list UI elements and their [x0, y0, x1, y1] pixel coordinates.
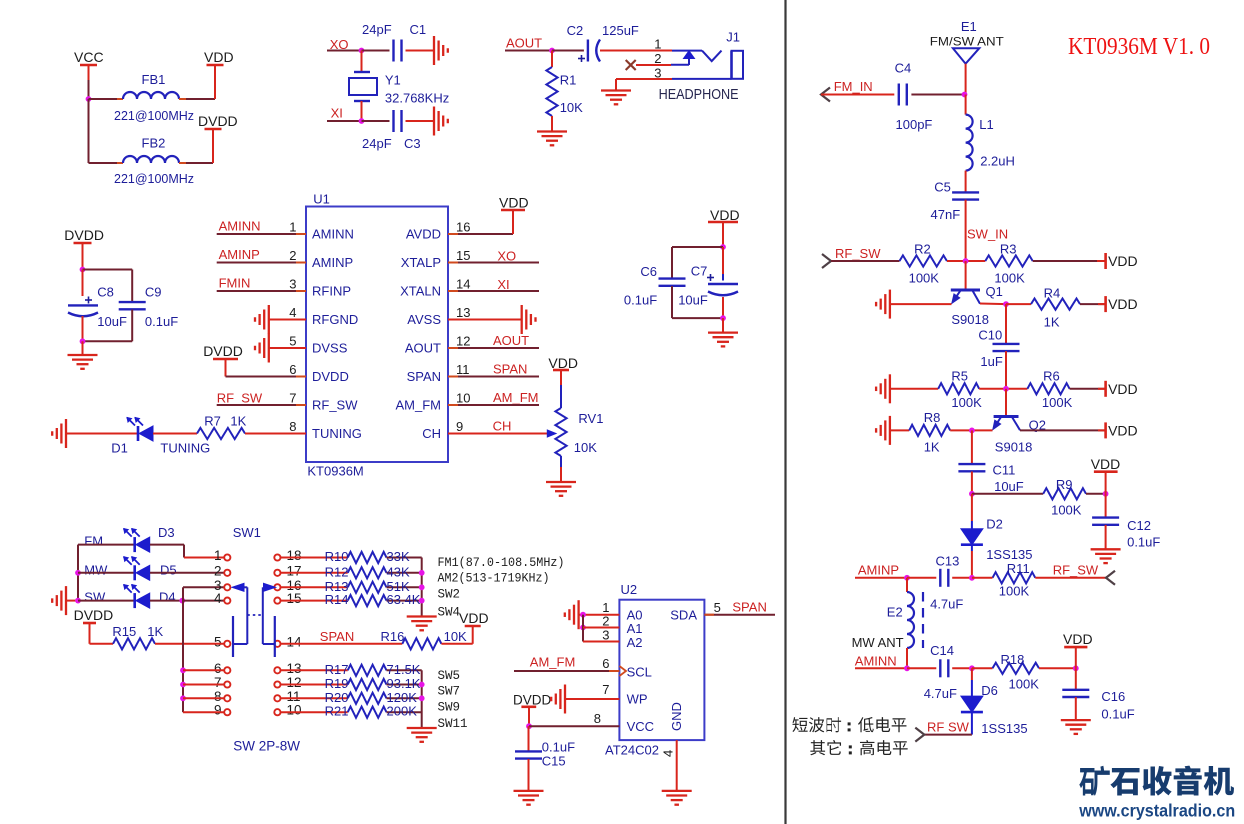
svg-text:XI: XI [331, 106, 343, 121]
svg-text:VDD: VDD [204, 49, 234, 65]
svg-text:8: 8 [594, 711, 601, 726]
svg-text:U1: U1 [313, 192, 330, 207]
svg-text:6: 6 [214, 661, 222, 676]
svg-text:3: 3 [289, 277, 296, 292]
svg-text:C6: C6 [640, 264, 657, 279]
svg-text:RF_SW: RF_SW [835, 246, 881, 261]
svg-text:C16: C16 [1101, 689, 1125, 704]
svg-text:13: 13 [456, 305, 470, 320]
svg-text:R12: R12 [325, 564, 349, 579]
svg-text:C13: C13 [936, 554, 960, 569]
svg-text:2: 2 [602, 614, 609, 629]
svg-text:8: 8 [289, 419, 296, 434]
svg-text:0.1uF: 0.1uF [145, 314, 178, 329]
svg-text:47nF: 47nF [931, 207, 961, 222]
svg-text:A1: A1 [627, 621, 643, 636]
svg-text:93.1K: 93.1K [387, 676, 421, 691]
svg-text:10K: 10K [444, 629, 467, 644]
svg-text:SPAN: SPAN [320, 629, 354, 644]
svg-text:6: 6 [602, 656, 609, 671]
svg-text:RF_SW: RF_SW [217, 391, 263, 406]
svg-text:R1: R1 [560, 73, 577, 88]
svg-text:R11: R11 [1007, 561, 1030, 576]
svg-text:FM_IN: FM_IN [834, 79, 873, 94]
svg-text:15: 15 [287, 591, 302, 606]
svg-text:R16: R16 [381, 629, 405, 644]
svg-text:DVSS: DVSS [312, 341, 348, 356]
svg-text:Y1: Y1 [385, 73, 401, 88]
svg-text:6: 6 [289, 362, 296, 377]
svg-text:100K: 100K [909, 271, 940, 286]
svg-text:C10: C10 [978, 328, 1002, 343]
svg-text:100K: 100K [999, 584, 1030, 599]
svg-text:C9: C9 [145, 285, 162, 300]
svg-text:AVDD: AVDD [406, 227, 441, 242]
svg-text:VDD: VDD [1108, 253, 1138, 269]
svg-text:KT0936M: KT0936M [307, 464, 363, 479]
svg-text:AM_FM: AM_FM [530, 655, 576, 670]
svg-text:TUNING: TUNING [160, 441, 210, 456]
svg-text:VDD: VDD [459, 610, 489, 626]
svg-text:AMINN: AMINN [219, 219, 261, 234]
svg-text:FM1(87.0-108.5MHz): FM1(87.0-108.5MHz) [438, 556, 565, 570]
svg-text:125uF: 125uF [602, 23, 639, 38]
svg-text:AM_FM: AM_FM [396, 398, 442, 413]
svg-text:SW4: SW4 [438, 606, 461, 620]
svg-text:14: 14 [287, 634, 303, 649]
svg-text:SW 2P-8W: SW 2P-8W [233, 739, 300, 754]
svg-text:4: 4 [214, 591, 222, 606]
svg-text:XO: XO [497, 249, 516, 264]
svg-text:XI: XI [497, 277, 509, 292]
svg-text:100pF: 100pF [896, 117, 933, 132]
svg-text:2: 2 [214, 563, 222, 578]
svg-text:D3: D3 [158, 525, 175, 540]
svg-text:11: 11 [287, 689, 301, 704]
svg-text:R19: R19 [325, 676, 349, 691]
svg-text:R21: R21 [325, 704, 349, 719]
svg-text:DVDD: DVDD [513, 693, 552, 708]
svg-text:1uF: 1uF [980, 354, 1002, 369]
svg-text:R20: R20 [325, 690, 349, 705]
svg-text:FM/SW ANT: FM/SW ANT [930, 34, 1005, 48]
svg-text:DVDD: DVDD [203, 343, 243, 359]
svg-text:5: 5 [214, 634, 222, 649]
svg-text:R7: R7 [204, 414, 221, 429]
svg-text:CH: CH [422, 426, 441, 441]
svg-text:AMINN: AMINN [855, 654, 897, 669]
svg-text:U2: U2 [621, 582, 638, 597]
svg-text:1K: 1K [1044, 315, 1060, 330]
svg-text:AOUT: AOUT [506, 36, 542, 51]
svg-text:GND: GND [669, 702, 684, 731]
svg-text:J1: J1 [726, 30, 740, 45]
svg-text:SW11: SW11 [438, 717, 468, 731]
svg-text:R17: R17 [325, 662, 349, 677]
svg-text:SW9: SW9 [438, 701, 461, 715]
svg-text:C1: C1 [410, 22, 427, 37]
svg-text:VDD: VDD [499, 195, 529, 211]
svg-text:E2: E2 [887, 605, 903, 620]
svg-text:4.7uF: 4.7uF [924, 686, 957, 701]
svg-text:0.1uF: 0.1uF [1101, 707, 1134, 722]
svg-text:7: 7 [214, 675, 222, 690]
svg-text:DVDD: DVDD [198, 113, 238, 129]
svg-text:www.crystalradio.cn: www.crystalradio.cn [1078, 801, 1235, 821]
svg-text:0.1uF: 0.1uF [624, 293, 657, 308]
svg-text:AMINP: AMINP [312, 255, 353, 270]
svg-text:Q1: Q1 [986, 284, 1003, 299]
svg-text:200K: 200K [387, 704, 418, 719]
svg-text:VDD: VDD [1108, 422, 1138, 438]
svg-text:HEADPHONE: HEADPHONE [659, 86, 739, 103]
svg-text:2: 2 [654, 51, 661, 66]
svg-text:13: 13 [287, 661, 302, 676]
svg-text:SW2: SW2 [438, 588, 461, 602]
svg-text:D4: D4 [159, 590, 176, 605]
svg-text:A2: A2 [627, 635, 643, 650]
svg-text:1K: 1K [147, 624, 163, 639]
svg-text:18: 18 [287, 548, 302, 563]
svg-text:DVDD: DVDD [74, 607, 114, 623]
svg-text:RV1: RV1 [578, 411, 603, 426]
svg-text:C11: C11 [993, 463, 1016, 478]
svg-text:C7: C7 [691, 264, 708, 279]
svg-text:2.2uH: 2.2uH [980, 154, 1015, 169]
svg-text:VDD: VDD [710, 207, 740, 223]
svg-text:43K: 43K [387, 564, 410, 579]
svg-text:14: 14 [456, 277, 470, 292]
svg-text:C12: C12 [1127, 518, 1151, 533]
svg-text:17: 17 [287, 563, 302, 578]
svg-text:FB2: FB2 [142, 136, 166, 151]
svg-text:VDD: VDD [1063, 631, 1093, 647]
svg-text:1SS135: 1SS135 [986, 547, 1032, 562]
svg-text:4: 4 [289, 305, 296, 320]
svg-text:SW5: SW5 [438, 669, 461, 683]
svg-text:CH: CH [493, 419, 512, 434]
svg-text:100K: 100K [951, 395, 982, 410]
svg-text:1: 1 [654, 37, 661, 52]
svg-text:SW_IN: SW_IN [967, 227, 1008, 242]
svg-text:5: 5 [714, 600, 721, 615]
svg-text:16: 16 [456, 220, 470, 235]
svg-text:7: 7 [289, 391, 296, 406]
svg-text:R4: R4 [1044, 286, 1061, 301]
svg-text:10uF: 10uF [678, 293, 708, 308]
svg-text:10K: 10K [574, 440, 597, 455]
svg-text:C2: C2 [567, 23, 584, 38]
svg-text:C14: C14 [930, 643, 954, 658]
svg-text:0.1uF: 0.1uF [542, 740, 575, 755]
svg-text:AM2(513-1719KHz): AM2(513-1719KHz) [438, 572, 550, 586]
svg-text:RF_SW: RF_SW [312, 398, 358, 413]
svg-text:SW7: SW7 [438, 685, 461, 699]
svg-text:32.768KHz: 32.768KHz [385, 91, 449, 106]
svg-text:E1: E1 [961, 19, 977, 34]
svg-text:1K: 1K [924, 440, 940, 455]
svg-text:7: 7 [602, 682, 609, 697]
svg-text:VDD: VDD [1108, 381, 1138, 397]
svg-text:R18: R18 [1001, 652, 1025, 667]
svg-text:33K: 33K [387, 549, 410, 564]
svg-text:SPAN: SPAN [493, 362, 527, 377]
svg-text:L1: L1 [979, 117, 993, 132]
svg-text:10uF: 10uF [97, 314, 127, 329]
svg-text:R8: R8 [924, 410, 941, 425]
svg-text:11: 11 [456, 362, 470, 377]
svg-text:10: 10 [456, 391, 470, 406]
svg-text:VDD: VDD [1091, 456, 1121, 472]
svg-text:12: 12 [287, 675, 302, 690]
svg-text:VDD: VDD [548, 355, 578, 371]
svg-text:RFGND: RFGND [312, 312, 358, 327]
svg-text:R2: R2 [914, 242, 931, 257]
svg-text:C15: C15 [542, 754, 566, 769]
svg-text:1: 1 [214, 548, 222, 563]
svg-text:3: 3 [602, 628, 609, 643]
svg-text:4: 4 [661, 750, 676, 757]
svg-text:9: 9 [456, 419, 463, 434]
svg-text:SCL: SCL [627, 665, 652, 680]
svg-text:0.1uF: 0.1uF [1127, 535, 1160, 550]
svg-text:AOUT: AOUT [493, 333, 529, 348]
svg-text:1K: 1K [230, 414, 246, 429]
svg-text:XTALP: XTALP [401, 255, 441, 270]
svg-text:FMIN: FMIN [219, 276, 251, 291]
svg-text:SW1: SW1 [233, 525, 261, 540]
svg-text:SPAN: SPAN [732, 600, 766, 615]
svg-text:RF SW: RF SW [927, 720, 970, 735]
svg-text:SW: SW [84, 590, 106, 605]
svg-text:1SS135: 1SS135 [981, 721, 1027, 736]
svg-text:WP: WP [627, 692, 648, 707]
svg-text:DVDD: DVDD [64, 227, 104, 243]
svg-text:10K: 10K [560, 100, 583, 115]
svg-text:R3: R3 [1000, 242, 1017, 257]
svg-text:120K: 120K [387, 690, 418, 705]
svg-text:8: 8 [214, 689, 222, 704]
svg-text:15: 15 [456, 248, 470, 263]
svg-text:AT24C02: AT24C02 [605, 743, 659, 758]
svg-text:221@100MHz: 221@100MHz [114, 108, 194, 123]
svg-text:9: 9 [214, 703, 222, 718]
svg-text:5: 5 [289, 334, 296, 349]
svg-text:71.5K: 71.5K [387, 662, 421, 677]
svg-text:KT0936M V1. 0: KT0936M V1. 0 [1068, 34, 1210, 60]
svg-text:10uF: 10uF [994, 479, 1024, 494]
svg-text:AOUT: AOUT [405, 341, 441, 356]
svg-text:AVSS: AVSS [407, 312, 441, 327]
svg-text:SPAN: SPAN [407, 369, 441, 384]
svg-text:VCC: VCC [74, 49, 104, 65]
svg-text:FM: FM [84, 534, 103, 549]
svg-text:MW ANT: MW ANT [852, 635, 904, 650]
svg-text:FB1: FB1 [142, 72, 166, 87]
svg-text:100K: 100K [1009, 677, 1040, 692]
svg-text:AMINP: AMINP [858, 563, 899, 578]
svg-text:221@100MHz: 221@100MHz [114, 171, 194, 186]
svg-text:AMINN: AMINN [312, 227, 354, 242]
svg-text:C4: C4 [895, 61, 912, 76]
svg-text:D6: D6 [981, 683, 998, 698]
svg-text:R15: R15 [112, 624, 136, 639]
svg-text:SDA: SDA [670, 608, 697, 623]
svg-text:R5: R5 [951, 369, 968, 384]
svg-text:D5: D5 [160, 563, 177, 578]
svg-text:RFINP: RFINP [312, 284, 351, 299]
svg-text:AM_FM: AM_FM [493, 390, 539, 405]
svg-text:R6: R6 [1043, 369, 1060, 384]
svg-text:VCC: VCC [627, 719, 654, 734]
svg-text:24pF: 24pF [362, 22, 392, 37]
svg-text:R14: R14 [325, 592, 349, 607]
svg-text:C8: C8 [97, 285, 114, 300]
svg-text:12: 12 [456, 334, 470, 349]
svg-text:1: 1 [289, 220, 296, 235]
svg-text:D1: D1 [111, 441, 128, 456]
svg-text:DVDD: DVDD [312, 369, 349, 384]
svg-text:S9018: S9018 [995, 440, 1033, 455]
svg-text:100K: 100K [1042, 395, 1073, 410]
svg-text:TUNING: TUNING [312, 426, 362, 441]
svg-text:10: 10 [287, 703, 302, 718]
svg-text:4.7uF: 4.7uF [930, 597, 963, 612]
svg-text:C5: C5 [934, 180, 951, 195]
svg-text:RF_SW: RF_SW [1053, 563, 1099, 578]
svg-text:R10: R10 [325, 549, 349, 564]
svg-text:XTALN: XTALN [400, 284, 441, 299]
svg-text:24pF: 24pF [362, 136, 392, 151]
svg-text:AMINP: AMINP [219, 247, 260, 262]
svg-text:C3: C3 [404, 136, 421, 151]
svg-text:VDD: VDD [1108, 296, 1138, 312]
svg-text:R9: R9 [1056, 477, 1073, 492]
svg-text:S9018: S9018 [951, 312, 989, 327]
svg-text:63.4K: 63.4K [387, 592, 421, 607]
svg-text:MW: MW [84, 563, 108, 578]
svg-text:2: 2 [289, 248, 296, 263]
svg-text:D2: D2 [986, 517, 1003, 532]
svg-text:100K: 100K [1051, 503, 1082, 518]
